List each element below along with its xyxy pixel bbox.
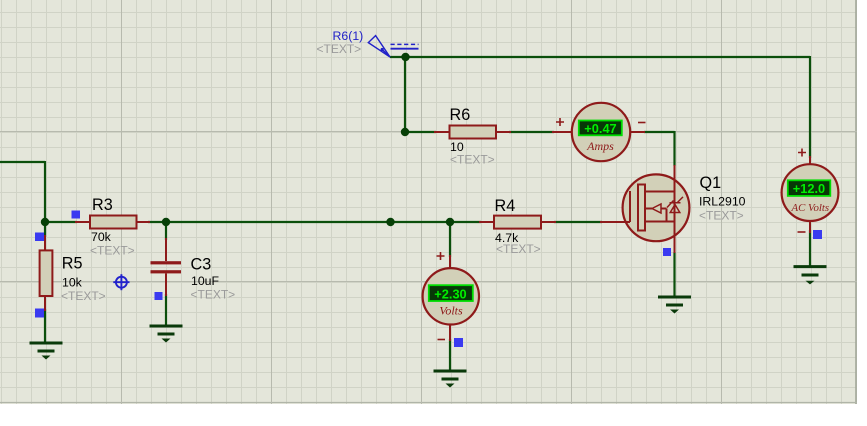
svg-text:<TEXT>: <TEXT> xyxy=(191,288,236,302)
wire R6 to ammeter xyxy=(509,131,554,133)
voltmeter plus pin label xyxy=(437,252,445,260)
wire voltmeter to ground xyxy=(449,339,451,371)
svg-text:Amps: Amps xyxy=(586,139,614,153)
voltage probe R6(1) xyxy=(317,29,419,57)
Q1 body diode xyxy=(670,205,680,213)
transistor Q1 xyxy=(600,165,746,253)
ammeter (Amps meter) xyxy=(552,103,646,161)
origin crosshair marker xyxy=(113,274,129,290)
selection handle (blue square) R5 bottom xyxy=(35,309,44,318)
wire AC voltmeter to ground xyxy=(809,230,811,267)
resistor R4 xyxy=(479,197,556,256)
Q1 gate lead xyxy=(600,221,630,223)
selection handle (blue square) near R3 xyxy=(72,211,81,219)
Q1 source stub xyxy=(645,221,675,223)
svg-text:Q1: Q1 xyxy=(700,174,722,192)
selection handle (blue square) R5 top xyxy=(35,233,44,242)
svg-text:+12.0: +12.0 xyxy=(793,181,825,196)
wire Q1 source to ground xyxy=(673,252,675,297)
svg-text:AC Volts: AC Volts xyxy=(791,202,830,214)
node P junction (probe on top bus) xyxy=(401,53,409,61)
ammeter minus pin label xyxy=(638,122,646,124)
svg-text:<TEXT>: <TEXT> xyxy=(496,242,541,256)
svg-text:IRL2910: IRL2910 xyxy=(699,195,746,209)
wire R3 to R4 main bus xyxy=(148,221,481,223)
junction dots xyxy=(41,53,454,226)
ground (below C3) xyxy=(150,326,183,343)
wire R5 to ground xyxy=(44,309,46,343)
wire R4 to Q1 gate xyxy=(554,221,602,223)
sheet border xyxy=(855,0,857,404)
wire top bus probe to corner xyxy=(390,56,810,58)
probe tape marks xyxy=(391,43,419,45)
wire node A down to R5 xyxy=(44,222,46,237)
ground (below Q1 source) xyxy=(658,297,691,314)
svg-text:10k: 10k xyxy=(62,275,83,289)
Q1 channel plate xyxy=(638,185,645,231)
svg-text:R6: R6 xyxy=(450,106,471,124)
svg-text:<TEXT>: <TEXT> xyxy=(450,153,495,167)
wire node A to R3 xyxy=(45,221,77,223)
svg-text:R3: R3 xyxy=(92,196,113,214)
svg-text:+0.47: +0.47 xyxy=(584,121,616,136)
wire node P down to R6 node xyxy=(404,57,406,132)
selection handle (blue square) Q1 source xyxy=(663,248,671,256)
wires (dark green) xyxy=(0,56,810,371)
wire ammeter to Q1 drain corner xyxy=(644,131,675,133)
AC voltmeter plus pin label xyxy=(798,149,806,157)
voltmeter minus pin label xyxy=(438,339,446,341)
wire node B down to C3 xyxy=(165,222,167,240)
AC voltmeter minus pin label xyxy=(798,231,806,233)
svg-text:70k: 70k xyxy=(91,230,112,244)
wire R6 node to R6 xyxy=(405,131,436,133)
Q1 body arrow xyxy=(645,209,667,222)
wire left input vertical to node A xyxy=(44,161,46,222)
svg-text:<TEXT>: <TEXT> xyxy=(699,209,744,223)
node A junction xyxy=(41,218,49,226)
wire right side down to AC voltmeter xyxy=(809,56,811,158)
selection handle (blue square) voltmeter minus xyxy=(454,338,463,347)
node D junction (voltmeter tap) xyxy=(446,218,454,226)
ground (below R5) xyxy=(30,343,63,360)
AC voltmeter (AC Volts meter) xyxy=(782,149,839,234)
voltmeter (Volts meter) xyxy=(423,252,479,341)
svg-text:+2.30: +2.30 xyxy=(434,286,466,301)
wire left input horizontal xyxy=(0,161,45,163)
svg-text:R4: R4 xyxy=(495,197,516,215)
node R6 junction xyxy=(401,128,409,136)
wire C3 to ground xyxy=(165,294,167,326)
svg-text:Volts: Volts xyxy=(439,304,463,318)
ground (below voltmeter) xyxy=(434,371,467,388)
svg-text:R5: R5 xyxy=(62,255,83,273)
resistor R3 xyxy=(75,196,150,258)
node C junction xyxy=(386,218,394,226)
svg-text:<TEXT>: <TEXT> xyxy=(317,42,362,56)
svg-text:<TEXT>: <TEXT> xyxy=(61,289,106,303)
Q1 drain-source vertical lead xyxy=(674,165,676,253)
svg-text:10uF: 10uF xyxy=(191,274,220,288)
svg-text:C3: C3 xyxy=(191,255,212,273)
svg-text:<TEXT>: <TEXT> xyxy=(90,244,135,258)
selection handle (blue square) AC voltmeter minus xyxy=(813,230,822,239)
ammeter plus pin label xyxy=(556,118,564,126)
Q1 gate bar xyxy=(629,191,631,222)
node B junction (C3 top) xyxy=(162,218,170,226)
resistor R6 xyxy=(434,106,511,167)
wire node D down to voltmeter xyxy=(449,222,451,257)
Q1 drain stub xyxy=(645,191,675,193)
ground (below AC voltmeter) xyxy=(794,267,827,285)
resistor R5 xyxy=(40,235,106,311)
selection handle (blue square) C3 bottom xyxy=(155,292,163,300)
capacitor C3 xyxy=(151,238,236,302)
